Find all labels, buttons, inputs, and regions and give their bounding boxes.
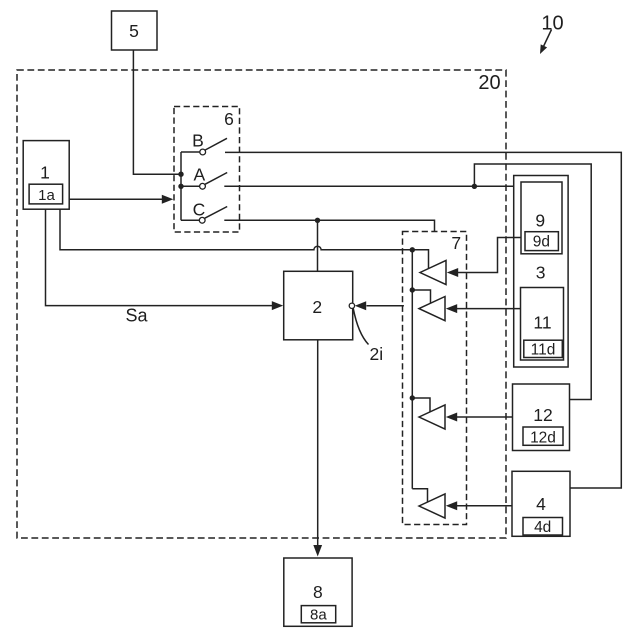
- contact A lever: [205, 173, 227, 185]
- svg-text:8a: 8a: [310, 607, 327, 624]
- svg-text:2: 2: [312, 297, 322, 317]
- svg-text:1a: 1a: [38, 187, 55, 204]
- svg-text:1: 1: [40, 163, 50, 183]
- junction dot from box 5: [178, 172, 183, 177]
- svg-text:9: 9: [535, 210, 545, 230]
- wire B to box 4: [225, 152, 621, 488]
- contact B lever: [205, 138, 227, 150]
- box 8: [284, 558, 352, 626]
- svg-text:7: 7: [451, 233, 461, 253]
- buffer 1 tap wire: [412, 250, 428, 269]
- contact B pivot: [200, 149, 206, 155]
- wire from amplifier group to box 2 input: [355, 301, 404, 310]
- selector bus wire: [180, 152, 182, 220]
- wire from box 1 to amplifier bus with hop: [60, 209, 412, 250]
- box 4: [512, 471, 570, 536]
- junction dot bus buffer 3 tap: [410, 395, 415, 400]
- box 1: [23, 141, 69, 210]
- contact C stub wire: [181, 219, 199, 221]
- wire from box 2 to box 8: [313, 340, 322, 557]
- svg-text:6: 6: [224, 109, 234, 129]
- wire A to box 3: [224, 185, 513, 187]
- wire A branch to box 12: [474, 164, 591, 400]
- svg-text:4: 4: [536, 494, 546, 514]
- junction dot on wire C: [315, 218, 320, 223]
- contact A pivot: [200, 183, 206, 189]
- svg-text:10: 10: [541, 13, 563, 35]
- input port circle 2i: [349, 303, 354, 308]
- box 12d: [523, 427, 563, 445]
- box 9: [521, 182, 562, 254]
- junction dot bus top: [410, 247, 415, 252]
- svg-text:12d: 12d: [530, 429, 556, 446]
- buffer U2: [419, 297, 445, 321]
- box 9d: [525, 232, 558, 251]
- svg-text:B: B: [192, 131, 204, 151]
- svg-text:A: A: [193, 164, 205, 184]
- buffer 2 tap wire: [412, 290, 430, 303]
- wire from 12 to buffer 3: [446, 413, 513, 422]
- buffer 4 tap wire: [412, 489, 427, 502]
- wire from 11 to buffer 2: [446, 304, 521, 313]
- leader line 2i: [353, 308, 368, 344]
- svg-text:11d: 11d: [531, 341, 556, 358]
- wire C branch into box 2: [317, 220, 319, 271]
- svg-text:12: 12: [533, 405, 552, 425]
- box 1a: [29, 184, 63, 204]
- box 4d: [523, 518, 563, 536]
- box 8a: [301, 606, 335, 623]
- box 2: [284, 271, 353, 340]
- svg-text:9d: 9d: [533, 234, 550, 251]
- box 5: [112, 11, 158, 50]
- svg-text:11: 11: [533, 313, 551, 333]
- label 10 leader arrow: [540, 30, 552, 55]
- contact C lever: [205, 207, 227, 219]
- wire from 4 to buffer 4: [446, 501, 512, 510]
- contact C pivot: [199, 217, 205, 223]
- svg-text:5: 5: [129, 21, 139, 41]
- svg-text:3: 3: [536, 263, 546, 283]
- box 11: [521, 288, 564, 361]
- buffer U4: [419, 494, 445, 518]
- wire Sa from box 1 to box 2: [46, 209, 284, 310]
- svg-text:C: C: [193, 199, 206, 219]
- box 11d: [524, 340, 563, 357]
- wire from 9d to buffer 1: [447, 238, 521, 278]
- dashed box 20: [17, 70, 506, 538]
- wire from box 5 to selector bus: [133, 50, 181, 174]
- buffer 3 tap wire: [412, 398, 430, 412]
- svg-text:8: 8: [313, 582, 323, 602]
- arrow from 1a to selector 6: [69, 195, 173, 204]
- amplifier bus wire: [411, 250, 413, 489]
- box 12: [513, 384, 570, 451]
- svg-text:2i: 2i: [370, 344, 384, 364]
- svg-text:4d: 4d: [534, 519, 551, 536]
- contact A stub wire: [181, 185, 200, 187]
- dashed box 6 selector: [174, 107, 240, 233]
- svg-text:Sa: Sa: [125, 306, 148, 326]
- box 3: [514, 176, 568, 368]
- svg-text:20: 20: [478, 72, 500, 94]
- contact B stub wire: [181, 151, 200, 153]
- wire C: [224, 220, 434, 232]
- junction dot on wire A: [472, 184, 477, 189]
- dashed box 7 amplifier group: [403, 232, 467, 525]
- buffer U1: [420, 260, 446, 284]
- buffer U3: [419, 405, 445, 429]
- junction dot contact A stub: [178, 184, 183, 189]
- junction dot bus buffer 2 tap: [410, 287, 415, 292]
